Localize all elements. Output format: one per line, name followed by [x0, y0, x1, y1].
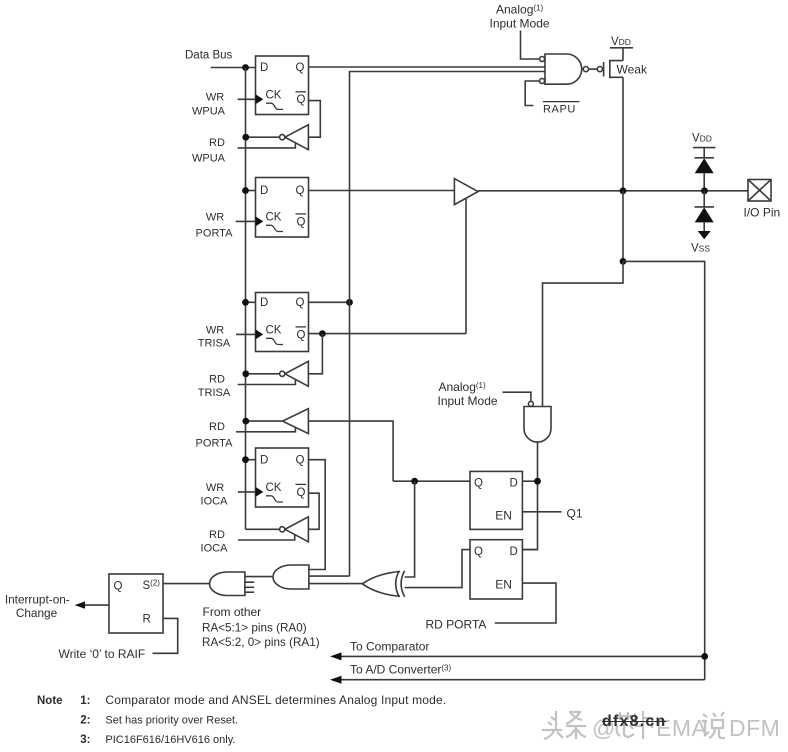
- ground VSS arrow: [698, 231, 711, 239]
- svg-text:Q: Q: [474, 546, 483, 558]
- svg-text:D: D: [260, 455, 268, 467]
- svg-text:D: D: [510, 478, 518, 490]
- svg-text:RD: RD: [209, 421, 225, 433]
- wire RD TRISA enable: [238, 380, 296, 385]
- wire latch U3 Q to RD PORTA buffer / XOR: [393, 480, 470, 482]
- svg-text:Q: Q: [296, 455, 305, 467]
- gate OR interrupt U7: [209, 572, 244, 596]
- svg-text:Q: Q: [114, 581, 123, 593]
- node junction dot pin sense: [620, 258, 627, 265]
- svg-text:Q: Q: [296, 185, 305, 197]
- clock input wedge TRISA: [256, 329, 264, 339]
- node junction dot comparator tap: [701, 653, 708, 660]
- node junction dot latch D: [534, 478, 541, 485]
- svg-text:CK: CK: [266, 325, 282, 337]
- bubble analog AND input: [528, 401, 533, 406]
- watermark 头条 @芯片EMA说DFM: [540, 706, 788, 748]
- svg-text:Analog(1): Analog(1): [439, 380, 486, 394]
- clock edge symbol PORTA: [266, 225, 283, 231]
- wire RD WPUA enable: [238, 143, 296, 148]
- svg-text:D: D: [260, 62, 268, 74]
- svg-text:RD PORTA: RD PORTA: [426, 617, 487, 631]
- svg-text:Q: Q: [297, 329, 306, 341]
- svg-text:I/O Pin: I/O Pin: [744, 206, 781, 220]
- wire analog input mode to NAND: [521, 31, 540, 60]
- svg-text:D: D: [260, 297, 268, 309]
- svg-text:S(2): S(2): [143, 579, 161, 593]
- svg-text:CK: CK: [266, 90, 282, 102]
- svg-text:Write ‘0’ to RAIF: Write ‘0’ to RAIF: [59, 647, 146, 661]
- wire RD WPUA output to data bus: [246, 136, 280, 138]
- buffer output driver triangle: [454, 179, 478, 205]
- svg-text:Analog(1): Analog(1): [496, 3, 543, 17]
- svg-text:CK: CK: [266, 212, 282, 224]
- wire TRISA Qbar to driver enable: [309, 333, 467, 335]
- svg-text:RAPU: RAPU: [543, 103, 576, 115]
- node junction dot TRISA Q: [346, 299, 353, 306]
- wire TRISA Qbar branch to read buffer: [308, 334, 322, 374]
- bubble NAND input bottom: [540, 79, 545, 84]
- wire latch U4 D input: [522, 549, 537, 551]
- wire latch U3 EN to Q1: [522, 511, 561, 513]
- buffer RD TRISA tri-state: [285, 361, 309, 386]
- wire AND IOC inputs: [309, 575, 350, 577]
- diode D2 clamp to VSS: [703, 191, 705, 207]
- wire WPUA Q to NAND input: [309, 66, 546, 68]
- wire weak pull-up drain to I/O line: [622, 77, 624, 191]
- clock input wedge IOCA: [256, 487, 264, 497]
- gate AND IOC U6: [273, 565, 309, 589]
- svg-text:Note: Note: [37, 695, 63, 707]
- svg-text:2:: 2:: [80, 715, 90, 727]
- node junction dot IOCA D: [242, 456, 249, 463]
- svg-text:IOCA: IOCA: [201, 495, 229, 507]
- svg-text:D: D: [510, 546, 518, 558]
- wire analog AND output to latch D inputs: [522, 442, 537, 549]
- svg-text:PORTA: PORTA: [196, 437, 234, 449]
- wire WR WPUA: [238, 98, 256, 100]
- clock edge symbol TRISA: [266, 338, 283, 344]
- svg-text:From other: From other: [203, 605, 262, 619]
- svg-text:To A/D Converter(3): To A/D Converter(3): [350, 663, 451, 677]
- gate XOR IOC U5: [362, 572, 400, 597]
- svg-text:RA<5:2, 0> pins (RA1): RA<5:2, 0> pins (RA1): [202, 636, 320, 649]
- svg-text:Input Mode: Input Mode: [490, 17, 550, 31]
- svg-text:Change: Change: [16, 606, 58, 620]
- node junction dot PORTA D: [242, 187, 249, 194]
- wire WPUA Qbar to read buffer: [308, 101, 320, 138]
- wire To Comparator: [339, 655, 705, 657]
- svg-text:Q: Q: [297, 94, 306, 106]
- wire WR PORTA: [236, 220, 256, 222]
- flip-flop IOCA box: [256, 448, 309, 507]
- wire IOCA D input stub: [246, 459, 256, 461]
- wire XOR top input: [405, 481, 415, 577]
- wire TRISA net vertical (to NAND and IOC AND): [350, 72, 546, 577]
- clock input wedge PORTA: [256, 216, 264, 226]
- svg-text:WR: WR: [206, 324, 224, 336]
- node junction dot weak/IO: [620, 187, 627, 194]
- wire XOR output to AND: [309, 583, 362, 585]
- flip-flop TRISA box: [256, 293, 309, 352]
- buffer RD WPUA tri-state: [285, 125, 309, 150]
- svg-text:EN: EN: [495, 509, 512, 523]
- svg-text:Q: Q: [474, 478, 483, 490]
- buffer RD PORTA (no bubble): [283, 409, 309, 434]
- node junction dot XOR branch: [411, 478, 418, 485]
- node I/O Pin pad: [748, 180, 771, 202]
- wire data bus vertical rail: [245, 68, 247, 530]
- diode D1 clamp to VDD: [695, 157, 715, 159]
- svg-text:VSS: VSS: [691, 242, 710, 254]
- wire data bus horizontal entry: [211, 67, 256, 69]
- latch U8 interrupt-on-change SR: [109, 574, 163, 633]
- bubble RD WPUA: [280, 135, 285, 140]
- wire WR TRISA: [236, 333, 256, 335]
- wire TRISA D input stub: [246, 301, 256, 303]
- svg-text:Input Mode: Input Mode: [438, 394, 498, 408]
- svg-text:WR: WR: [206, 211, 224, 223]
- latch U3 pin-value (upper): [470, 471, 522, 529]
- node RAPU wire: [525, 81, 539, 106]
- wire pin sense to analog gate: [543, 261, 624, 406]
- wire pin sense to right rail: [623, 261, 705, 679]
- svg-text:PIC16F616/16HV616 only.: PIC16F616/16HV616 only.: [105, 734, 235, 746]
- bubble transistor gate: [597, 67, 602, 72]
- wire To A/D Converter: [339, 679, 705, 681]
- node junction dot RD TRISA: [242, 370, 249, 377]
- wire pin sense vertical: [622, 191, 624, 262]
- wire RD TRISA output to data bus: [246, 373, 280, 375]
- wire driver output to I/O pin: [478, 190, 748, 192]
- svg-text:Q: Q: [296, 62, 305, 74]
- svg-text:VDD: VDD: [611, 36, 631, 48]
- svg-text:CK: CK: [266, 482, 282, 494]
- svg-text:Q: Q: [297, 487, 306, 499]
- svg-text:R: R: [143, 614, 151, 626]
- svg-text:Data Bus: Data Bus: [185, 50, 233, 62]
- wire latch U4 Q to XOR bottom input: [405, 550, 470, 588]
- watermark dfx8.cn overlay: [602, 713, 666, 731]
- svg-text:D: D: [260, 185, 268, 197]
- svg-text:3:: 3:: [80, 734, 90, 746]
- bubble RD IOCA: [280, 527, 285, 532]
- wire RD IOCA enable: [238, 535, 295, 540]
- svg-text:WR: WR: [206, 482, 224, 494]
- svg-text:RD: RD: [209, 137, 225, 149]
- svg-text:Set has priority over Reset.: Set has priority over Reset.: [105, 715, 238, 727]
- clock input wedge WPUA: [256, 94, 264, 104]
- node data bus junction dot top: [242, 64, 249, 71]
- gate NAND weak pull-up U1: [545, 54, 582, 84]
- wire IOCA Qbar to read buffer: [308, 493, 319, 529]
- wire WR IOCA: [238, 491, 256, 493]
- node junction dot clamp: [701, 187, 708, 194]
- node junction dot TRISA Qbar: [319, 330, 326, 337]
- bubble RD TRISA: [280, 371, 285, 376]
- svg-text:EN: EN: [495, 578, 512, 592]
- svg-text:IOCA: IOCA: [201, 543, 229, 555]
- svg-text:RD: RD: [209, 373, 225, 385]
- wire AND IOC output to OR: [245, 576, 273, 578]
- wire OR output to S input: [163, 583, 210, 585]
- wire RD IOCA output to data bus: [246, 528, 280, 530]
- svg-text:Q: Q: [297, 216, 306, 228]
- wire IOCA Q down to IOC AND gate: [309, 460, 326, 570]
- flip-flop PORTA box: [256, 178, 309, 238]
- wire RD PORTA output to data bus: [246, 420, 283, 422]
- svg-text:WPUA: WPUA: [192, 152, 226, 164]
- svg-text:VDD: VDD: [692, 133, 712, 145]
- clock edge symbol WPUA: [266, 103, 283, 109]
- svg-text:Comparator mode and ANSEL dete: Comparator mode and ANSEL determines Ana…: [105, 693, 446, 707]
- wire R input from Write 0 to RAIF: [153, 618, 178, 653]
- wire latch U4 EN to RD PORTA: [495, 583, 556, 623]
- svg-text:Q1: Q1: [567, 506, 583, 520]
- svg-text:WR: WR: [206, 92, 224, 104]
- svg-text:Q: Q: [296, 297, 305, 309]
- bubble NAND output: [583, 67, 588, 72]
- svg-text:1:: 1:: [80, 695, 90, 707]
- bubble NAND input top: [540, 57, 545, 62]
- buffer RD IOCA tri-state: [285, 517, 309, 542]
- svg-text:PORTA: PORTA: [196, 227, 234, 239]
- transistor Q weak pull-up P-MOSFET: [603, 62, 605, 77]
- node junction dot TRISA D: [242, 299, 249, 306]
- wire PORTA D input stub: [246, 190, 256, 192]
- svg-text:TRISA: TRISA: [198, 337, 231, 349]
- svg-text:RA<5:1> pins (RA0): RA<5:1> pins (RA0): [202, 621, 307, 634]
- wire analog input mode to AND gate: [503, 392, 531, 401]
- wire RD PORTA input from pin latch: [308, 421, 393, 481]
- flip-flop WPUA box: [256, 56, 309, 115]
- svg-text:WPUA: WPUA: [192, 106, 226, 118]
- svg-text:TRISA: TRISA: [198, 387, 231, 399]
- wire PORTA Q to output driver: [309, 190, 455, 192]
- wire from other pins fan: [245, 581, 254, 583]
- wire TRISA Q to vertical net: [309, 301, 350, 303]
- node junction dot RD WPUA: [242, 134, 249, 141]
- wire driver enable vertical: [465, 199, 467, 334]
- svg-text:To Comparator: To Comparator: [350, 640, 429, 654]
- wire NAND output to transistor gate: [589, 68, 598, 70]
- svg-text:Weak: Weak: [617, 62, 648, 76]
- svg-text:Interrupt-on-: Interrupt-on-: [5, 592, 70, 606]
- wire RD PORTA enable: [236, 427, 295, 432]
- clock edge symbol IOCA: [266, 496, 283, 502]
- svg-text:RD: RD: [209, 529, 225, 541]
- gate AND analog (vertical) U2: [524, 407, 551, 443]
- latch U4 delayed (lower): [470, 540, 522, 599]
- node junction dot RD PORTA: [242, 418, 249, 425]
- wire interrupt Q output arrow: [82, 604, 109, 606]
